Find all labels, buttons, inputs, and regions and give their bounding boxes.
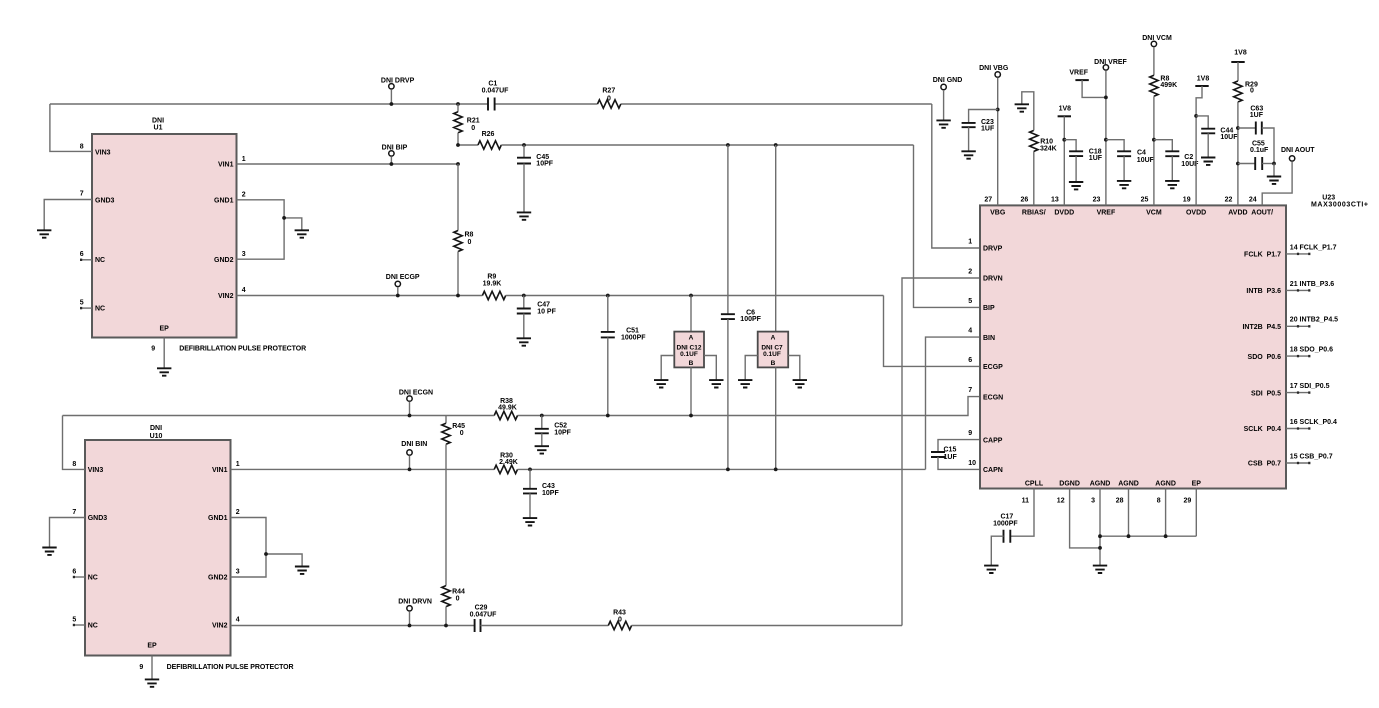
wire U10 NC pin6 stub bbox=[73, 576, 85, 578]
wire R26 line right bbox=[501, 144, 913, 146]
svg-text:SDI P0.5: SDI P0.5 bbox=[1251, 390, 1281, 397]
wire U1 EP stub bbox=[163, 338, 165, 369]
svg-text:VIN2: VIN2 bbox=[212, 623, 228, 630]
junction C12 B bbox=[689, 414, 693, 418]
resistor R44 0 bbox=[442, 586, 450, 607]
terminal DNI VBG bbox=[995, 72, 1000, 77]
wire C7 right leg bbox=[788, 356, 800, 381]
svg-text:BIP: BIP bbox=[983, 305, 995, 312]
svg-text:INT2B P4.5: INT2B P4.5 bbox=[1242, 324, 1281, 331]
capacitor C45 10PF bbox=[517, 158, 531, 164]
svg-text:7: 7 bbox=[968, 387, 972, 394]
svg-text:0: 0 bbox=[468, 239, 472, 246]
svg-text:10PF: 10PF bbox=[536, 161, 553, 168]
svg-text:B: B bbox=[771, 360, 776, 367]
svg-text:1UF: 1UF bbox=[1089, 155, 1103, 162]
svg-text:NC: NC bbox=[88, 575, 98, 582]
resistor R10 324K bbox=[1030, 130, 1038, 151]
wire R45-R44 link bbox=[445, 444, 447, 585]
svg-text:U23: U23 bbox=[1322, 195, 1335, 202]
wire U10 VIN3 to ECGN net bbox=[63, 416, 85, 470]
wire DRVP net left bbox=[50, 103, 488, 105]
wire U10 GND3 to ground bbox=[50, 518, 85, 548]
svg-text:GND1: GND1 bbox=[214, 197, 234, 204]
wire DRVN line from U10 VIN2 bbox=[231, 625, 475, 627]
svg-text:R44: R44 bbox=[452, 589, 465, 596]
svg-text:1UF: 1UF bbox=[1250, 112, 1264, 119]
wire C17 to ground bbox=[991, 536, 1003, 565]
svg-text:R21: R21 bbox=[467, 118, 480, 125]
svg-text:3: 3 bbox=[242, 251, 246, 258]
svg-text:1V8: 1V8 bbox=[1197, 76, 1210, 83]
junction DNI DRVP bbox=[390, 102, 394, 106]
junction U10 GND bracket bbox=[264, 552, 268, 556]
svg-text:5: 5 bbox=[968, 298, 972, 305]
svg-text:SCLK P0.4: SCLK P0.4 bbox=[1244, 426, 1281, 433]
svg-text:DNI BIN: DNI BIN bbox=[401, 441, 427, 448]
ground C44 bbox=[1201, 158, 1215, 165]
wire U23 stub CSB_P0.7 bbox=[1286, 462, 1310, 464]
wire AOUT net bbox=[1262, 161, 1292, 205]
wire DRVP net right bbox=[621, 103, 932, 105]
junction AGND rail 1 bbox=[1098, 534, 1102, 538]
capacitor C52 10PF bbox=[535, 429, 549, 434]
svg-text:B: B bbox=[689, 360, 694, 367]
capacitor C15 1UF bbox=[931, 452, 945, 457]
wire R10 to ground bracket bbox=[1022, 92, 1034, 131]
capacitor C29 0.047UF bbox=[475, 619, 481, 632]
svg-text:22: 22 bbox=[1225, 196, 1233, 203]
ground AGND bbox=[1093, 566, 1107, 573]
wire DRVN to chip pin 2 bbox=[902, 278, 980, 626]
wire C12 B lead bbox=[690, 367, 692, 415]
junction C2 bbox=[1152, 138, 1156, 142]
svg-text:15 CSB_P0.7: 15 CSB_P0.7 bbox=[1290, 453, 1333, 460]
svg-text:11: 11 bbox=[1022, 498, 1030, 505]
svg-text:6: 6 bbox=[968, 357, 972, 364]
ground C52 bbox=[535, 446, 549, 453]
junction C12 A bbox=[689, 294, 693, 298]
svg-text:26: 26 bbox=[1021, 196, 1029, 203]
svg-text:DNI VCM: DNI VCM bbox=[1142, 35, 1172, 42]
wire U10 GND1-GND2 bracket bbox=[231, 518, 267, 578]
svg-text:0.047UF: 0.047UF bbox=[470, 612, 498, 619]
svg-text:C1: C1 bbox=[488, 81, 497, 88]
svg-text:1V8: 1V8 bbox=[1234, 50, 1247, 57]
svg-text:1000PF: 1000PF bbox=[993, 520, 1018, 527]
junction AGND rail 3 bbox=[1164, 534, 1168, 538]
svg-text:10UF: 10UF bbox=[1220, 134, 1238, 141]
wire R45 top lead bbox=[445, 416, 447, 424]
junction R44 bottom bbox=[444, 624, 448, 628]
wire ECGN from chip pin 7 bbox=[518, 397, 981, 416]
capacitor C6 100PF bbox=[721, 314, 735, 319]
junction U1 GND bracket bbox=[282, 216, 286, 220]
svg-text:GND1: GND1 bbox=[208, 515, 228, 522]
svg-text:0: 0 bbox=[618, 617, 622, 624]
capacitor C51 1000PF bbox=[601, 332, 615, 338]
svg-text:CSB P0.7: CSB P0.7 bbox=[1248, 461, 1281, 468]
svg-text:8: 8 bbox=[72, 461, 76, 468]
svg-text:FCLK P1.7: FCLK P1.7 bbox=[1244, 252, 1281, 259]
wire C63 right lead bbox=[1262, 128, 1274, 164]
svg-text:10PF: 10PF bbox=[554, 429, 571, 436]
ground U1 GND3 bbox=[37, 230, 51, 237]
wire C43 bottom lead bbox=[529, 493, 531, 518]
svg-text:VBG: VBG bbox=[990, 209, 1006, 216]
junction C45 top bbox=[522, 143, 526, 147]
junction BIP-R8 vertical bbox=[456, 162, 460, 166]
svg-text:9: 9 bbox=[968, 430, 972, 437]
svg-text:6: 6 bbox=[72, 568, 76, 575]
terminal DNI BIP bbox=[389, 151, 394, 156]
wire EP pin 29 bbox=[1195, 489, 1197, 537]
wire C47 bottom lead bbox=[523, 314, 525, 339]
wire C2 bottom lead bbox=[1171, 156, 1173, 181]
wire C15 top bracket bbox=[938, 440, 980, 452]
ground C4 bbox=[1117, 181, 1131, 188]
svg-text:BIN: BIN bbox=[983, 335, 995, 342]
svg-text:4: 4 bbox=[968, 328, 972, 335]
IC U10 DNI defibrillation pulse protector box bbox=[85, 440, 231, 656]
wire U23 stub INTB2_P4.5 bbox=[1286, 325, 1310, 327]
wire VCM net bbox=[1153, 96, 1155, 205]
resistor R30 2.49K bbox=[494, 465, 517, 473]
svg-text:10UF: 10UF bbox=[1137, 157, 1155, 164]
svg-text:19: 19 bbox=[1183, 196, 1191, 203]
junction C7 B bottom bbox=[774, 468, 778, 472]
resistor R45 0 bbox=[442, 423, 450, 444]
svg-text:21 INTB_P3.6: 21 INTB_P3.6 bbox=[1290, 281, 1334, 288]
svg-text:AGND: AGND bbox=[1155, 480, 1176, 487]
wire C55 to ground bbox=[1273, 164, 1275, 177]
svg-text:C51: C51 bbox=[626, 327, 639, 334]
wire C4 bottom lead bbox=[1123, 156, 1125, 181]
wire C15 bottom bracket bbox=[938, 457, 980, 469]
svg-text:DNI VBG: DNI VBG bbox=[979, 65, 1009, 72]
junction R21 top bbox=[456, 102, 460, 106]
svg-text:AGND: AGND bbox=[1118, 480, 1139, 487]
wire C45 bottom lead bbox=[523, 164, 525, 213]
svg-text:CAPP: CAPP bbox=[983, 437, 1003, 444]
wire R8 bottom lead bbox=[457, 252, 459, 296]
wire C23 top lead bbox=[969, 110, 998, 123]
svg-text:C15: C15 bbox=[944, 447, 957, 454]
terminal DNI ECGP bbox=[395, 281, 400, 286]
ground C12 left bbox=[654, 380, 668, 387]
ground C55 C63 bbox=[1267, 177, 1281, 184]
svg-text:VREF: VREF bbox=[1069, 69, 1088, 76]
svg-text:ECGP: ECGP bbox=[983, 364, 1003, 371]
wire C7 left leg bbox=[745, 356, 758, 381]
svg-text:10PF: 10PF bbox=[542, 490, 559, 497]
wire VREF power bracket bbox=[1082, 80, 1106, 97]
svg-text:24: 24 bbox=[1249, 196, 1257, 203]
svg-text:NC: NC bbox=[88, 623, 98, 630]
power VREF bbox=[1075, 79, 1088, 81]
wire U23 stub FCLK_P1.7 bbox=[1286, 253, 1310, 255]
svg-text:49.9K: 49.9K bbox=[498, 404, 517, 411]
junction C18 bbox=[1062, 138, 1066, 142]
ground C7 right bbox=[793, 380, 807, 387]
junction DGND-AGND bbox=[1098, 546, 1102, 550]
junction C55 right bbox=[1272, 162, 1276, 166]
svg-text:25: 25 bbox=[1141, 196, 1149, 203]
wire C63 left lead bbox=[1238, 127, 1256, 129]
capacitor C4 10UF bbox=[1117, 151, 1131, 156]
svg-text:AVDD: AVDD bbox=[1228, 209, 1247, 216]
svg-text:29: 29 bbox=[1184, 498, 1192, 505]
ground C43 bbox=[523, 518, 537, 525]
wire AGND pin 28 bbox=[1128, 489, 1130, 537]
svg-text:DRVN: DRVN bbox=[983, 276, 1003, 283]
svg-text:499K: 499K bbox=[1160, 82, 1177, 89]
terminal DNI VREF bbox=[1103, 65, 1108, 70]
svg-text:DRVP: DRVP bbox=[983, 246, 1003, 253]
terminal DNI DRVP bbox=[389, 84, 394, 89]
junction C6 top bbox=[726, 143, 730, 147]
wire BIN line right bbox=[518, 468, 926, 470]
terminal DNI GND bbox=[941, 84, 946, 89]
svg-text:100PF: 100PF bbox=[740, 316, 761, 323]
svg-text:1UF: 1UF bbox=[981, 126, 995, 133]
wire R26 line left bbox=[458, 144, 478, 146]
junction DNI DRVN bbox=[408, 624, 412, 628]
junction DNI ECGN bbox=[408, 414, 412, 418]
svg-text:VIN3: VIN3 bbox=[95, 150, 111, 157]
svg-text:VIN3: VIN3 bbox=[88, 467, 104, 474]
wire C6 bottom lead bbox=[727, 319, 729, 469]
wire vertical R8 top lead bbox=[457, 164, 459, 231]
resistor R27 0 bbox=[598, 100, 621, 108]
capacitor C47 10 PF bbox=[517, 309, 531, 314]
capacitor C17 1000PF bbox=[1004, 530, 1011, 543]
wire C55 left lead bbox=[1238, 163, 1255, 165]
wire U10 GND bracket to ground bbox=[266, 554, 302, 567]
junction C23 bbox=[996, 108, 1000, 112]
junction C52 top bbox=[540, 414, 544, 418]
wire U1 VIN3 to DRVP net bbox=[50, 104, 92, 151]
svg-text:EP: EP bbox=[160, 326, 170, 333]
svg-text:R43: R43 bbox=[613, 610, 626, 617]
ground C7 left bbox=[738, 380, 752, 387]
wire U1 GND bracket to ground bbox=[284, 218, 302, 230]
svg-text:5: 5 bbox=[80, 299, 84, 306]
wire C18 top lead bbox=[1064, 140, 1076, 152]
junction C43 top bbox=[528, 468, 532, 472]
wire CPLL to C17 bbox=[1010, 489, 1034, 537]
wire VBG net bbox=[997, 78, 999, 206]
capacitor C63 1UF bbox=[1256, 122, 1262, 135]
junction C6 bottom bbox=[726, 468, 730, 472]
svg-text:DNI VREF: DNI VREF bbox=[1094, 59, 1127, 66]
svg-text:CPLL: CPLL bbox=[1025, 480, 1044, 487]
ground U10 EP bbox=[145, 679, 159, 686]
wire C51 bottom lead bbox=[607, 337, 609, 415]
svg-text:RBIAS/: RBIAS/ bbox=[1022, 209, 1046, 216]
junction C51 top bbox=[606, 294, 610, 298]
junction DNI BIP bbox=[390, 162, 394, 166]
wire AGND rail bbox=[1100, 535, 1196, 537]
junction C4 bbox=[1104, 138, 1108, 142]
wire C7 B lead bbox=[775, 367, 777, 469]
capacitor C2 10UF bbox=[1165, 151, 1179, 156]
wire U23 stub SDO_P0.6 bbox=[1286, 355, 1310, 357]
terminal DNI AOUT bbox=[1289, 156, 1294, 161]
wire DRVN line right bbox=[632, 625, 902, 627]
wire U23 stub SCLK_P0.4 bbox=[1286, 428, 1310, 430]
svg-text:13: 13 bbox=[1051, 196, 1059, 203]
svg-text:EP: EP bbox=[147, 642, 157, 649]
wire C44 top lead bbox=[1196, 116, 1208, 129]
resistor R8 499K bbox=[1150, 75, 1158, 96]
wire DVDD net bbox=[1063, 116, 1065, 205]
wire U1 NC pin6 stub bbox=[80, 259, 92, 261]
resistor R21 0 bbox=[454, 112, 462, 133]
wire BIN line from U10 VIN1 bbox=[231, 468, 495, 470]
wire DNI ECGN stem bbox=[409, 402, 411, 416]
wire C45 top lead bbox=[523, 145, 525, 158]
wire C43 top lead bbox=[529, 469, 531, 488]
wire DNI DRVN stem bbox=[409, 611, 411, 625]
svg-text:GND2: GND2 bbox=[208, 575, 228, 582]
IC U1 DNI defibrillation pulse protector box bbox=[92, 134, 237, 338]
wire VCM upper lead bbox=[1153, 47, 1155, 75]
svg-text:GND2: GND2 bbox=[214, 257, 234, 264]
terminal DNI ECGN bbox=[407, 396, 412, 401]
svg-text:OVDD: OVDD bbox=[1186, 209, 1206, 216]
wire ECGP to chip pin 6 bbox=[884, 296, 981, 367]
svg-text:0: 0 bbox=[1250, 88, 1254, 95]
capacitor C18 1UF bbox=[1069, 151, 1083, 156]
wire VREF net bbox=[1105, 70, 1107, 205]
svg-text:19.9K: 19.9K bbox=[483, 280, 502, 287]
wire U10 NC pin5 stub bbox=[73, 624, 85, 626]
svg-text:VIN1: VIN1 bbox=[218, 162, 234, 169]
svg-text:9: 9 bbox=[139, 664, 143, 671]
svg-text:AGND: AGND bbox=[1090, 480, 1111, 487]
svg-text:DNI BIP: DNI BIP bbox=[382, 144, 408, 151]
ground C47 bbox=[517, 338, 531, 345]
svg-text:DNI ECGP: DNI ECGP bbox=[386, 274, 420, 281]
capacitor C55 0.1uF bbox=[1255, 157, 1262, 170]
svg-text:VIN2: VIN2 bbox=[218, 293, 234, 300]
svg-text:0: 0 bbox=[607, 95, 611, 102]
svg-text:18 SDO_P0.6: 18 SDO_P0.6 bbox=[1290, 347, 1333, 354]
svg-text:10: 10 bbox=[968, 460, 976, 467]
svg-text:1: 1 bbox=[236, 461, 240, 468]
svg-text:VIN1: VIN1 bbox=[212, 467, 228, 474]
wire AVDD upper lead bbox=[1237, 62, 1239, 81]
power 1V8 AVDD bbox=[1231, 61, 1244, 63]
svg-text:1000PF: 1000PF bbox=[621, 334, 646, 341]
junction C47 top bbox=[522, 294, 526, 298]
svg-text:1: 1 bbox=[968, 239, 972, 246]
junction C55 left bbox=[1236, 162, 1240, 166]
ground C12 right bbox=[709, 380, 723, 387]
svg-text:10 PF: 10 PF bbox=[537, 309, 556, 316]
wire C52 bottom lead bbox=[541, 433, 543, 446]
wire AGND pin 3 to ground bbox=[1099, 489, 1101, 566]
capacitor C1 0.047UF bbox=[488, 98, 495, 111]
svg-text:A: A bbox=[689, 335, 694, 342]
svg-text:DNI: DNI bbox=[152, 118, 164, 125]
svg-text:DNI DRVN: DNI DRVN bbox=[398, 599, 432, 606]
svg-text:0.047UF: 0.047UF bbox=[482, 88, 510, 95]
power 1V8 OVDD bbox=[1195, 85, 1208, 87]
wire RBIAS lower bbox=[1033, 151, 1035, 205]
svg-text:NC: NC bbox=[95, 306, 105, 313]
wire C51 top lead bbox=[607, 296, 609, 332]
wire U10 EP stub bbox=[151, 656, 153, 680]
wire C6 top lead bbox=[727, 145, 729, 314]
svg-text:R8: R8 bbox=[465, 232, 474, 239]
svg-text:DEFIBRILLATION PULSE PROTECTOR: DEFIBRILLATION PULSE PROTECTOR bbox=[179, 346, 306, 353]
svg-text:1: 1 bbox=[242, 156, 246, 163]
wire U1 NC pin5 stub bbox=[80, 307, 92, 309]
wire C12 right leg bbox=[704, 356, 716, 381]
svg-text:12: 12 bbox=[1057, 498, 1065, 505]
junction R8-ECGP bbox=[456, 294, 460, 298]
svg-text:AOUT/: AOUT/ bbox=[1251, 209, 1273, 216]
svg-text:VCM: VCM bbox=[1146, 209, 1162, 216]
resistor R29 0 bbox=[1234, 81, 1242, 102]
svg-text:1V8: 1V8 bbox=[1059, 106, 1072, 113]
wire BIP line from U1 VIN1 bbox=[237, 163, 459, 165]
resistor R8 0 bbox=[454, 231, 462, 252]
svg-text:7: 7 bbox=[72, 509, 76, 516]
svg-text:0: 0 bbox=[471, 125, 475, 132]
svg-text:R27: R27 bbox=[602, 88, 615, 95]
wire DNI BIN stem bbox=[409, 456, 411, 470]
svg-text:27: 27 bbox=[984, 196, 992, 203]
svg-text:0.1uF: 0.1uF bbox=[1250, 147, 1269, 154]
svg-text:4: 4 bbox=[236, 616, 240, 623]
ground U10 GND1 GND2 bbox=[295, 567, 309, 574]
resistor R9 19.9K bbox=[482, 291, 505, 299]
svg-text:6: 6 bbox=[80, 251, 84, 258]
junction DNI BIN bbox=[408, 468, 412, 472]
junction C63 left bbox=[1236, 126, 1240, 130]
wire OVDD net bbox=[1196, 86, 1202, 205]
svg-text:2: 2 bbox=[236, 509, 240, 516]
junction R21-R26 bbox=[456, 143, 460, 147]
svg-text:SDO P0.6: SDO P0.6 bbox=[1248, 354, 1282, 361]
wire C55 right lead bbox=[1262, 163, 1274, 165]
wire C2 top lead bbox=[1154, 140, 1172, 152]
wire DNI BIP stem bbox=[390, 156, 392, 164]
wire C23 bottom lead bbox=[968, 127, 970, 151]
svg-text:7: 7 bbox=[80, 191, 84, 198]
wire ECGP line right bbox=[506, 295, 884, 297]
svg-text:324K: 324K bbox=[1040, 145, 1057, 152]
svg-text:R45: R45 bbox=[452, 423, 465, 430]
svg-text:NC: NC bbox=[95, 257, 105, 264]
wire R44 bottom lead bbox=[445, 607, 447, 626]
wire U23 stub SDI_P0.5 bbox=[1286, 392, 1310, 394]
svg-text:3: 3 bbox=[1091, 498, 1095, 505]
svg-text:8: 8 bbox=[80, 143, 84, 150]
wire C12 A lead bbox=[690, 296, 692, 332]
svg-text:C4: C4 bbox=[1137, 150, 1146, 157]
svg-text:23: 23 bbox=[1093, 196, 1101, 203]
capacitor DNI C12 0.1UF box bbox=[674, 332, 704, 368]
svg-text:DNI DRVP: DNI DRVP bbox=[381, 77, 415, 84]
ground DNI GND bbox=[936, 120, 950, 127]
junction C7 A bbox=[774, 143, 778, 147]
wire DNI DRVP stem bbox=[390, 89, 392, 104]
capacitor C23 1UF bbox=[962, 123, 976, 127]
